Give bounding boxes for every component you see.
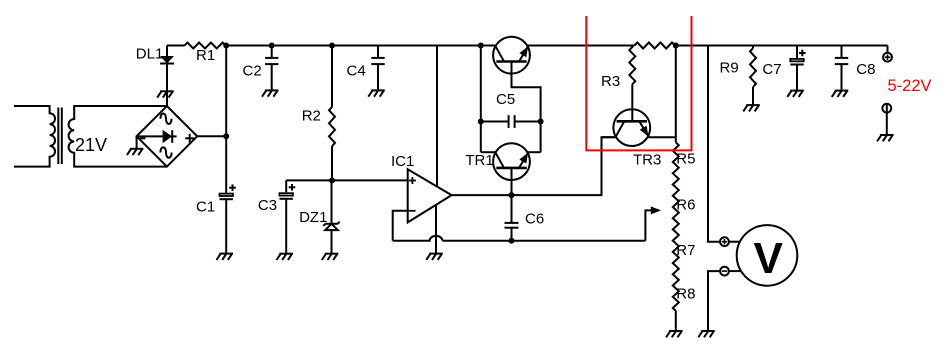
svg-text:C2: C2 bbox=[243, 62, 262, 79]
svg-text:TR1: TR1 bbox=[465, 152, 493, 169]
svg-text:C6: C6 bbox=[525, 211, 544, 228]
svg-text:R7: R7 bbox=[676, 242, 695, 259]
svg-text:21V: 21V bbox=[75, 135, 107, 155]
svg-text:C4: C4 bbox=[347, 63, 366, 80]
svg-text:DZ1: DZ1 bbox=[299, 209, 327, 226]
svg-text:IC1: IC1 bbox=[391, 153, 414, 170]
svg-text:C1: C1 bbox=[196, 199, 215, 216]
svg-text:R2: R2 bbox=[302, 108, 321, 125]
svg-text:C5: C5 bbox=[496, 91, 515, 108]
svg-text:R6: R6 bbox=[676, 196, 695, 213]
svg-text:R8: R8 bbox=[676, 285, 695, 302]
svg-text:5-22V: 5-22V bbox=[888, 77, 932, 95]
svg-text:V: V bbox=[754, 234, 784, 283]
svg-text:DL1: DL1 bbox=[136, 46, 164, 63]
svg-text:C3: C3 bbox=[258, 197, 277, 214]
svg-text:TR3: TR3 bbox=[633, 152, 661, 169]
svg-text:R5: R5 bbox=[676, 151, 695, 168]
svg-text:R9: R9 bbox=[720, 60, 739, 77]
svg-text:R1: R1 bbox=[196, 47, 215, 64]
svg-text:C8: C8 bbox=[856, 61, 875, 78]
svg-text:C7: C7 bbox=[762, 61, 781, 78]
svg-text:R3: R3 bbox=[601, 73, 620, 90]
